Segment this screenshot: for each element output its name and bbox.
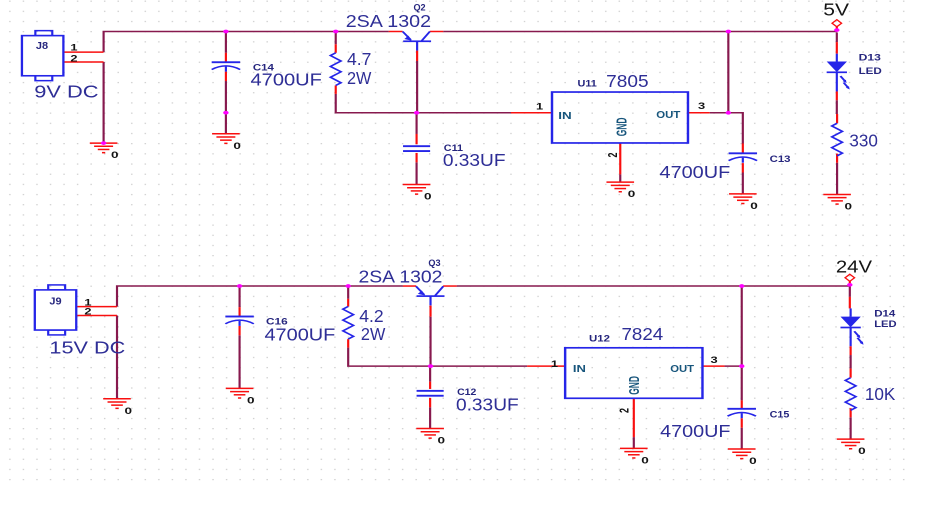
svg-text:0: 0 xyxy=(858,446,866,456)
svg-text:U12: U12 xyxy=(589,334,610,344)
svg-text:2W: 2W xyxy=(347,68,371,88)
svg-text:J9: J9 xyxy=(49,296,61,307)
svg-text:0: 0 xyxy=(438,436,446,446)
svg-text:C13: C13 xyxy=(770,155,791,165)
svg-text:OUT: OUT xyxy=(670,362,694,374)
svg-text:2SA 1302: 2SA 1302 xyxy=(358,266,442,286)
svg-text:7824: 7824 xyxy=(621,324,663,344)
svg-text:0.33UF: 0.33UF xyxy=(456,394,519,414)
svg-text:0: 0 xyxy=(424,191,432,201)
svg-text:2: 2 xyxy=(84,307,91,317)
svg-text:0: 0 xyxy=(845,201,853,211)
svg-text:0: 0 xyxy=(233,141,241,151)
svg-text:0: 0 xyxy=(750,201,758,211)
svg-text:0: 0 xyxy=(124,406,132,416)
svg-text:2W: 2W xyxy=(361,324,385,344)
svg-text:4700UF: 4700UF xyxy=(660,162,731,182)
svg-text:GND: GND xyxy=(612,118,629,137)
svg-text:330: 330 xyxy=(849,130,877,150)
svg-text:0: 0 xyxy=(628,189,636,199)
svg-text:IN: IN xyxy=(558,109,571,121)
svg-text:7805: 7805 xyxy=(606,71,648,91)
svg-text:2: 2 xyxy=(70,54,77,64)
svg-text:0: 0 xyxy=(247,395,255,405)
svg-text:4700UF: 4700UF xyxy=(264,324,335,344)
svg-text:D13: D13 xyxy=(859,53,881,63)
svg-text:1: 1 xyxy=(536,102,543,112)
svg-text:0: 0 xyxy=(641,455,649,465)
svg-text:0: 0 xyxy=(111,150,119,160)
svg-text:1: 1 xyxy=(551,360,558,370)
svg-text:9V DC: 9V DC xyxy=(34,81,98,101)
svg-text:LED: LED xyxy=(859,67,882,77)
svg-text:10K: 10K xyxy=(865,384,896,404)
svg-text:0: 0 xyxy=(749,456,757,466)
svg-text:5V: 5V xyxy=(823,0,849,20)
svg-text:LED: LED xyxy=(874,320,896,330)
svg-text:OUT: OUT xyxy=(656,108,680,120)
svg-text:C15: C15 xyxy=(770,410,790,420)
svg-text:4.7: 4.7 xyxy=(347,49,371,69)
svg-text:J8: J8 xyxy=(36,40,48,51)
svg-text:2SA 1302: 2SA 1302 xyxy=(346,11,431,31)
svg-text:U11: U11 xyxy=(577,79,596,89)
svg-text:2: 2 xyxy=(618,408,632,413)
svg-text:15V DC: 15V DC xyxy=(49,337,125,357)
svg-text:4700UF: 4700UF xyxy=(251,70,322,90)
svg-text:24V: 24V xyxy=(836,256,872,276)
svg-text:1: 1 xyxy=(70,43,77,53)
svg-text:GND: GND xyxy=(625,376,642,395)
svg-text:2: 2 xyxy=(606,152,620,157)
svg-text:3: 3 xyxy=(710,356,717,366)
svg-text:IN: IN xyxy=(573,362,586,374)
svg-text:4700UF: 4700UF xyxy=(660,421,730,441)
svg-text:0.33UF: 0.33UF xyxy=(443,150,506,170)
svg-text:D14: D14 xyxy=(874,309,896,319)
svg-text:3: 3 xyxy=(698,102,705,112)
